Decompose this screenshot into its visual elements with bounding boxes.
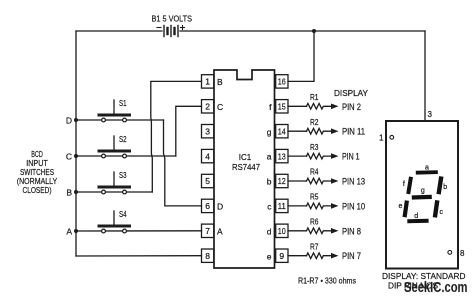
- svg-text:14: 14: [278, 126, 286, 136]
- pin 10: [276, 224, 288, 237]
- wire row C: [76, 155, 176, 157]
- svg-text:g: g: [421, 188, 425, 195]
- svg-text:12: 12: [278, 176, 286, 186]
- svg-text:c: c: [267, 202, 272, 212]
- svg-text:PIN 2: PIN 2: [342, 102, 361, 112]
- svg-text:c: c: [440, 209, 444, 216]
- svg-text:BCD: BCD: [31, 150, 43, 159]
- svg-text:R2: R2: [310, 117, 319, 127]
- svg-text:R6: R6: [310, 217, 319, 227]
- switch S4: [99, 209, 130, 233]
- svg-text:D: D: [217, 202, 223, 212]
- wire top rail left (battery minus to left rail): [76, 30, 162, 32]
- svg-text:3: 3: [205, 126, 210, 136]
- pin 8: [202, 249, 214, 262]
- wire ground return to pin 8: [76, 255, 202, 257]
- pin 2: [202, 100, 214, 113]
- svg-text:DIP PIN NOS: DIP PIN NOS: [388, 281, 438, 291]
- svg-text:16: 16: [278, 77, 286, 87]
- wire row B: [76, 191, 152, 193]
- svg-text:5: 5: [205, 176, 210, 186]
- resistor R7: [288, 241, 361, 261]
- svg-text:a: a: [267, 152, 272, 162]
- svg-text:PIN 10: PIN 10: [342, 201, 365, 211]
- pin 14: [276, 125, 288, 138]
- svg-text:4: 4: [205, 151, 210, 161]
- svg-text:8: 8: [205, 251, 210, 261]
- resistor R3: [288, 142, 360, 162]
- svg-text:CLOSED): CLOSED): [23, 186, 52, 195]
- pin 3: [202, 125, 214, 138]
- svg-text:B: B: [217, 77, 223, 87]
- resistor R6: [288, 217, 361, 237]
- battery B1: [157, 26, 185, 37]
- resistor R2: [288, 117, 365, 137]
- svg-text:RS7447: RS7447: [232, 162, 260, 172]
- svg-text:DISPLAY: DISPLAY: [334, 88, 368, 98]
- svg-text:b: b: [443, 184, 447, 191]
- svg-text:g: g: [267, 127, 272, 137]
- wire left rail: [75, 31, 77, 256]
- svg-text:R3: R3: [310, 142, 319, 152]
- svg-text:d: d: [267, 226, 272, 236]
- pin 16: [276, 75, 288, 88]
- svg-text:S2: S2: [119, 134, 127, 144]
- pin 9: [276, 249, 288, 262]
- node junction top rail: [312, 29, 316, 33]
- svg-text:a: a: [425, 164, 429, 171]
- svg-text:PIN 1: PIN 1: [342, 152, 360, 162]
- svg-text:11: 11: [278, 201, 286, 211]
- svg-text:INPUT: INPUT: [26, 159, 48, 168]
- svg-text:R1-R7 • 330 ohms: R1-R7 • 330 ohms: [298, 276, 356, 286]
- node C: [74, 154, 78, 158]
- svg-text:3: 3: [428, 110, 433, 119]
- switch S1: [99, 98, 130, 122]
- svg-text:f: f: [269, 102, 272, 112]
- svg-text:b: b: [267, 177, 272, 187]
- svg-text:2: 2: [205, 102, 210, 112]
- svg-text:R5: R5: [310, 192, 319, 202]
- wire riser B to pin 1: [151, 81, 202, 192]
- resistor R1: [288, 92, 361, 112]
- svg-text:PIN 11: PIN 11: [342, 127, 365, 137]
- pin 15: [276, 100, 288, 113]
- svg-text:6: 6: [205, 201, 210, 211]
- svg-text:S3: S3: [119, 170, 127, 180]
- seven segment digit: [405, 172, 442, 221]
- BCD input switches caption: [17, 150, 58, 195]
- svg-text:d: d: [414, 213, 418, 220]
- pin 1: [202, 75, 214, 88]
- pin 13: [276, 149, 288, 162]
- svg-text:A: A: [66, 227, 72, 237]
- svg-text:PIN 7: PIN 7: [342, 251, 361, 261]
- wire top rail to display pin 3: [424, 31, 426, 121]
- svg-text:PIN 13: PIN 13: [342, 177, 365, 187]
- wire row A to pin 7: [76, 230, 202, 232]
- svg-text:e: e: [399, 203, 403, 210]
- svg-text:R4: R4: [310, 167, 319, 177]
- resistor R5: [288, 192, 365, 212]
- svg-text:A: A: [217, 226, 223, 236]
- wire riser D to pin 6: [164, 120, 202, 206]
- svg-text:9: 9: [279, 251, 284, 261]
- pin 11: [276, 199, 288, 212]
- svg-text:B1 5 VOLTS: B1 5 VOLTS: [152, 14, 193, 24]
- svg-text:IC1: IC1: [239, 152, 252, 162]
- svg-text:R7: R7: [310, 241, 319, 251]
- svg-text:(NORMALLY: (NORMALLY: [17, 177, 58, 186]
- svg-text:R1: R1: [310, 92, 319, 102]
- svg-text:7: 7: [205, 226, 210, 236]
- svg-text:10: 10: [278, 226, 286, 236]
- svg-text:D: D: [66, 116, 72, 126]
- svg-text:15: 15: [278, 102, 286, 112]
- svg-text:C: C: [66, 152, 72, 162]
- svg-text:B: B: [66, 188, 72, 198]
- svg-text:8: 8: [460, 249, 465, 258]
- op IC1 RS7447 body: [214, 70, 275, 268]
- wire pin 16 to top rail: [288, 31, 314, 81]
- switch S3: [99, 170, 130, 194]
- svg-text:f: f: [403, 181, 405, 188]
- svg-text:1: 1: [205, 77, 210, 87]
- pin 12: [276, 174, 288, 187]
- svg-text:C: C: [217, 102, 223, 112]
- svg-text:e: e: [267, 251, 272, 261]
- node B: [74, 190, 78, 194]
- svg-text:SWITCHES: SWITCHES: [20, 168, 54, 177]
- node A: [74, 229, 78, 233]
- wire top rail right (battery plus to display): [180, 30, 425, 32]
- wire riser C to pin 2: [176, 106, 202, 156]
- pin 6: [202, 199, 214, 212]
- svg-text:S4: S4: [119, 209, 127, 219]
- switch S2: [99, 134, 130, 158]
- display pin 8 circle: [448, 251, 452, 255]
- resistor R4: [288, 167, 365, 187]
- wire row D: [76, 119, 164, 121]
- node D: [74, 118, 78, 122]
- display pin 1 circle: [390, 135, 394, 139]
- svg-text:S1: S1: [119, 98, 127, 108]
- display DS1 box: [386, 121, 458, 269]
- pin 4: [202, 149, 214, 162]
- pin 5: [202, 174, 214, 187]
- svg-text:13: 13: [278, 151, 286, 161]
- svg-text:1: 1: [379, 134, 384, 143]
- pin 7: [202, 224, 214, 237]
- svg-text:PIN 8: PIN 8: [342, 226, 361, 236]
